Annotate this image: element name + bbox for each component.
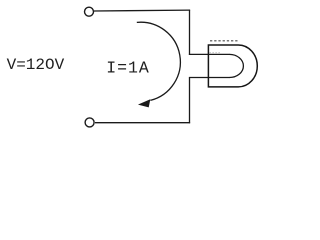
dashed construction line above lamp [210,40,238,42]
current direction arrow (arc) [137,22,181,100]
terminal (top, open circle) [85,7,94,16]
wire filament top lead [189,53,230,55]
current arrow head [139,100,150,107]
lamp L1 filament loop arc [229,54,243,77]
wire top horizontal [94,9,190,12]
svg-text:V=12OV: V=12OV [7,56,65,74]
faint dotted line inside lamp [210,52,222,54]
wire bottom horizontal [95,122,190,124]
wire filament bottom lead [189,77,230,79]
lamp L1 bulb envelope (D-shaped outline) [208,45,257,87]
svg-text:I=1A: I=1A [106,58,150,77]
wire bottom-right vertical [189,78,191,124]
terminal (bottom, open circle) [85,118,94,127]
wire top-right vertical [189,10,191,55]
